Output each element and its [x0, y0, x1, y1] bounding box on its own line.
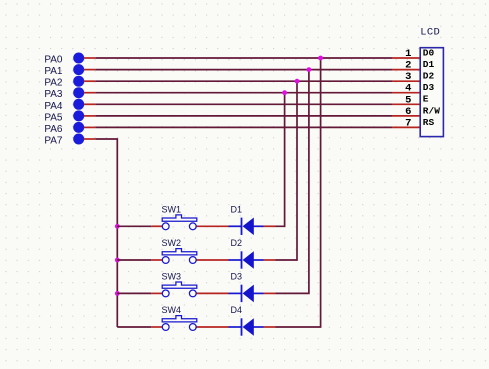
pin PA0 — [73, 53, 84, 64]
svg-text:D3: D3 — [231, 272, 243, 282]
junction SW3 branch — [115, 291, 120, 296]
svg-text:1: 1 — [405, 48, 411, 60]
svg-text:PA1: PA1 — [44, 66, 63, 77]
pin PA3 — [73, 87, 84, 98]
svg-text:D0: D0 — [423, 47, 435, 58]
junction SW1 branch — [115, 224, 120, 229]
pin PA1 — [73, 64, 84, 75]
wire PA3 to LCD pin4 — [84, 92, 420, 94]
svg-text:E: E — [423, 94, 429, 105]
diode D4 — [229, 318, 264, 336]
svg-text:LCD: LCD — [420, 27, 440, 39]
wire PA4 to LCD pin5 — [84, 103, 420, 105]
svg-text:PA2: PA2 — [44, 78, 63, 89]
wire branch PA1 to diode D3 — [264, 70, 309, 294]
wire PA2 to LCD pin3 — [84, 80, 420, 82]
switch SW3 — [162, 282, 197, 297]
wire to SW2 left — [117, 259, 162, 261]
wire branch PA3 to diode D1 — [264, 93, 285, 227]
svg-text:RS: RS — [423, 117, 435, 128]
svg-text:7: 7 — [405, 117, 411, 129]
svg-text:3: 3 — [405, 71, 411, 83]
diode D2 — [229, 251, 264, 269]
svg-text:4: 4 — [405, 83, 411, 95]
wire PA6 to LCD pin7 — [84, 126, 420, 128]
switch SW1 — [162, 215, 197, 230]
svg-text:PA5: PA5 — [44, 112, 63, 123]
wire SW1 to D1 — [196, 225, 228, 227]
wire SW3 to D3 — [196, 292, 228, 294]
pin PA5 — [73, 110, 84, 121]
wire to SW3 left — [117, 292, 162, 294]
svg-text:PA4: PA4 — [44, 101, 63, 112]
svg-text:SW1: SW1 — [162, 205, 182, 215]
svg-text:D2: D2 — [231, 238, 243, 248]
wire branch PA0 to diode D4 — [264, 58, 321, 327]
wire to SW1 left — [117, 225, 162, 227]
wire PA1 to LCD pin2 — [84, 69, 420, 71]
switch SW4 — [162, 316, 197, 331]
diode D3 — [229, 285, 264, 303]
svg-text:PA0: PA0 — [44, 55, 63, 66]
svg-text:D1: D1 — [231, 205, 243, 215]
pin PA7 — [73, 134, 84, 145]
wire PA0 to LCD pin1 — [84, 57, 420, 59]
junction PA3 branch — [282, 90, 287, 95]
wire PA5 to LCD pin6 — [84, 115, 420, 117]
part LCD body — [420, 48, 443, 137]
svg-text:2: 2 — [405, 60, 411, 72]
junction SW2 branch — [115, 258, 120, 263]
wire branch PA2 to diode D2 — [264, 81, 298, 260]
junction PA2 branch — [295, 79, 300, 84]
junction PA1 branch — [307, 67, 312, 72]
svg-text:D1: D1 — [423, 59, 435, 70]
pin PA6 — [73, 122, 84, 133]
svg-text:SW2: SW2 — [162, 238, 182, 248]
junction PA0 branch — [318, 56, 323, 61]
svg-text:6: 6 — [405, 106, 411, 118]
pin PA4 — [73, 99, 84, 110]
wire SW4 to D4 — [196, 326, 228, 328]
svg-text:SW3: SW3 — [162, 272, 182, 282]
wire SW2 to D2 — [196, 259, 228, 261]
diode D1 — [229, 218, 264, 236]
svg-text:D4: D4 — [231, 305, 243, 315]
svg-text:R/W: R/W — [423, 105, 440, 116]
pin PA2 — [73, 76, 84, 87]
switch SW2 — [162, 249, 197, 264]
svg-text:PA6: PA6 — [44, 124, 63, 135]
wire to SW4 left — [117, 326, 162, 328]
svg-text:SW4: SW4 — [162, 305, 182, 315]
svg-text:D3: D3 — [423, 82, 435, 93]
wire PA7 down to switches — [84, 139, 118, 327]
svg-text:5: 5 — [405, 94, 411, 106]
svg-text:PA3: PA3 — [44, 89, 63, 100]
svg-text:D2: D2 — [423, 71, 435, 82]
svg-text:PA7: PA7 — [44, 136, 63, 147]
